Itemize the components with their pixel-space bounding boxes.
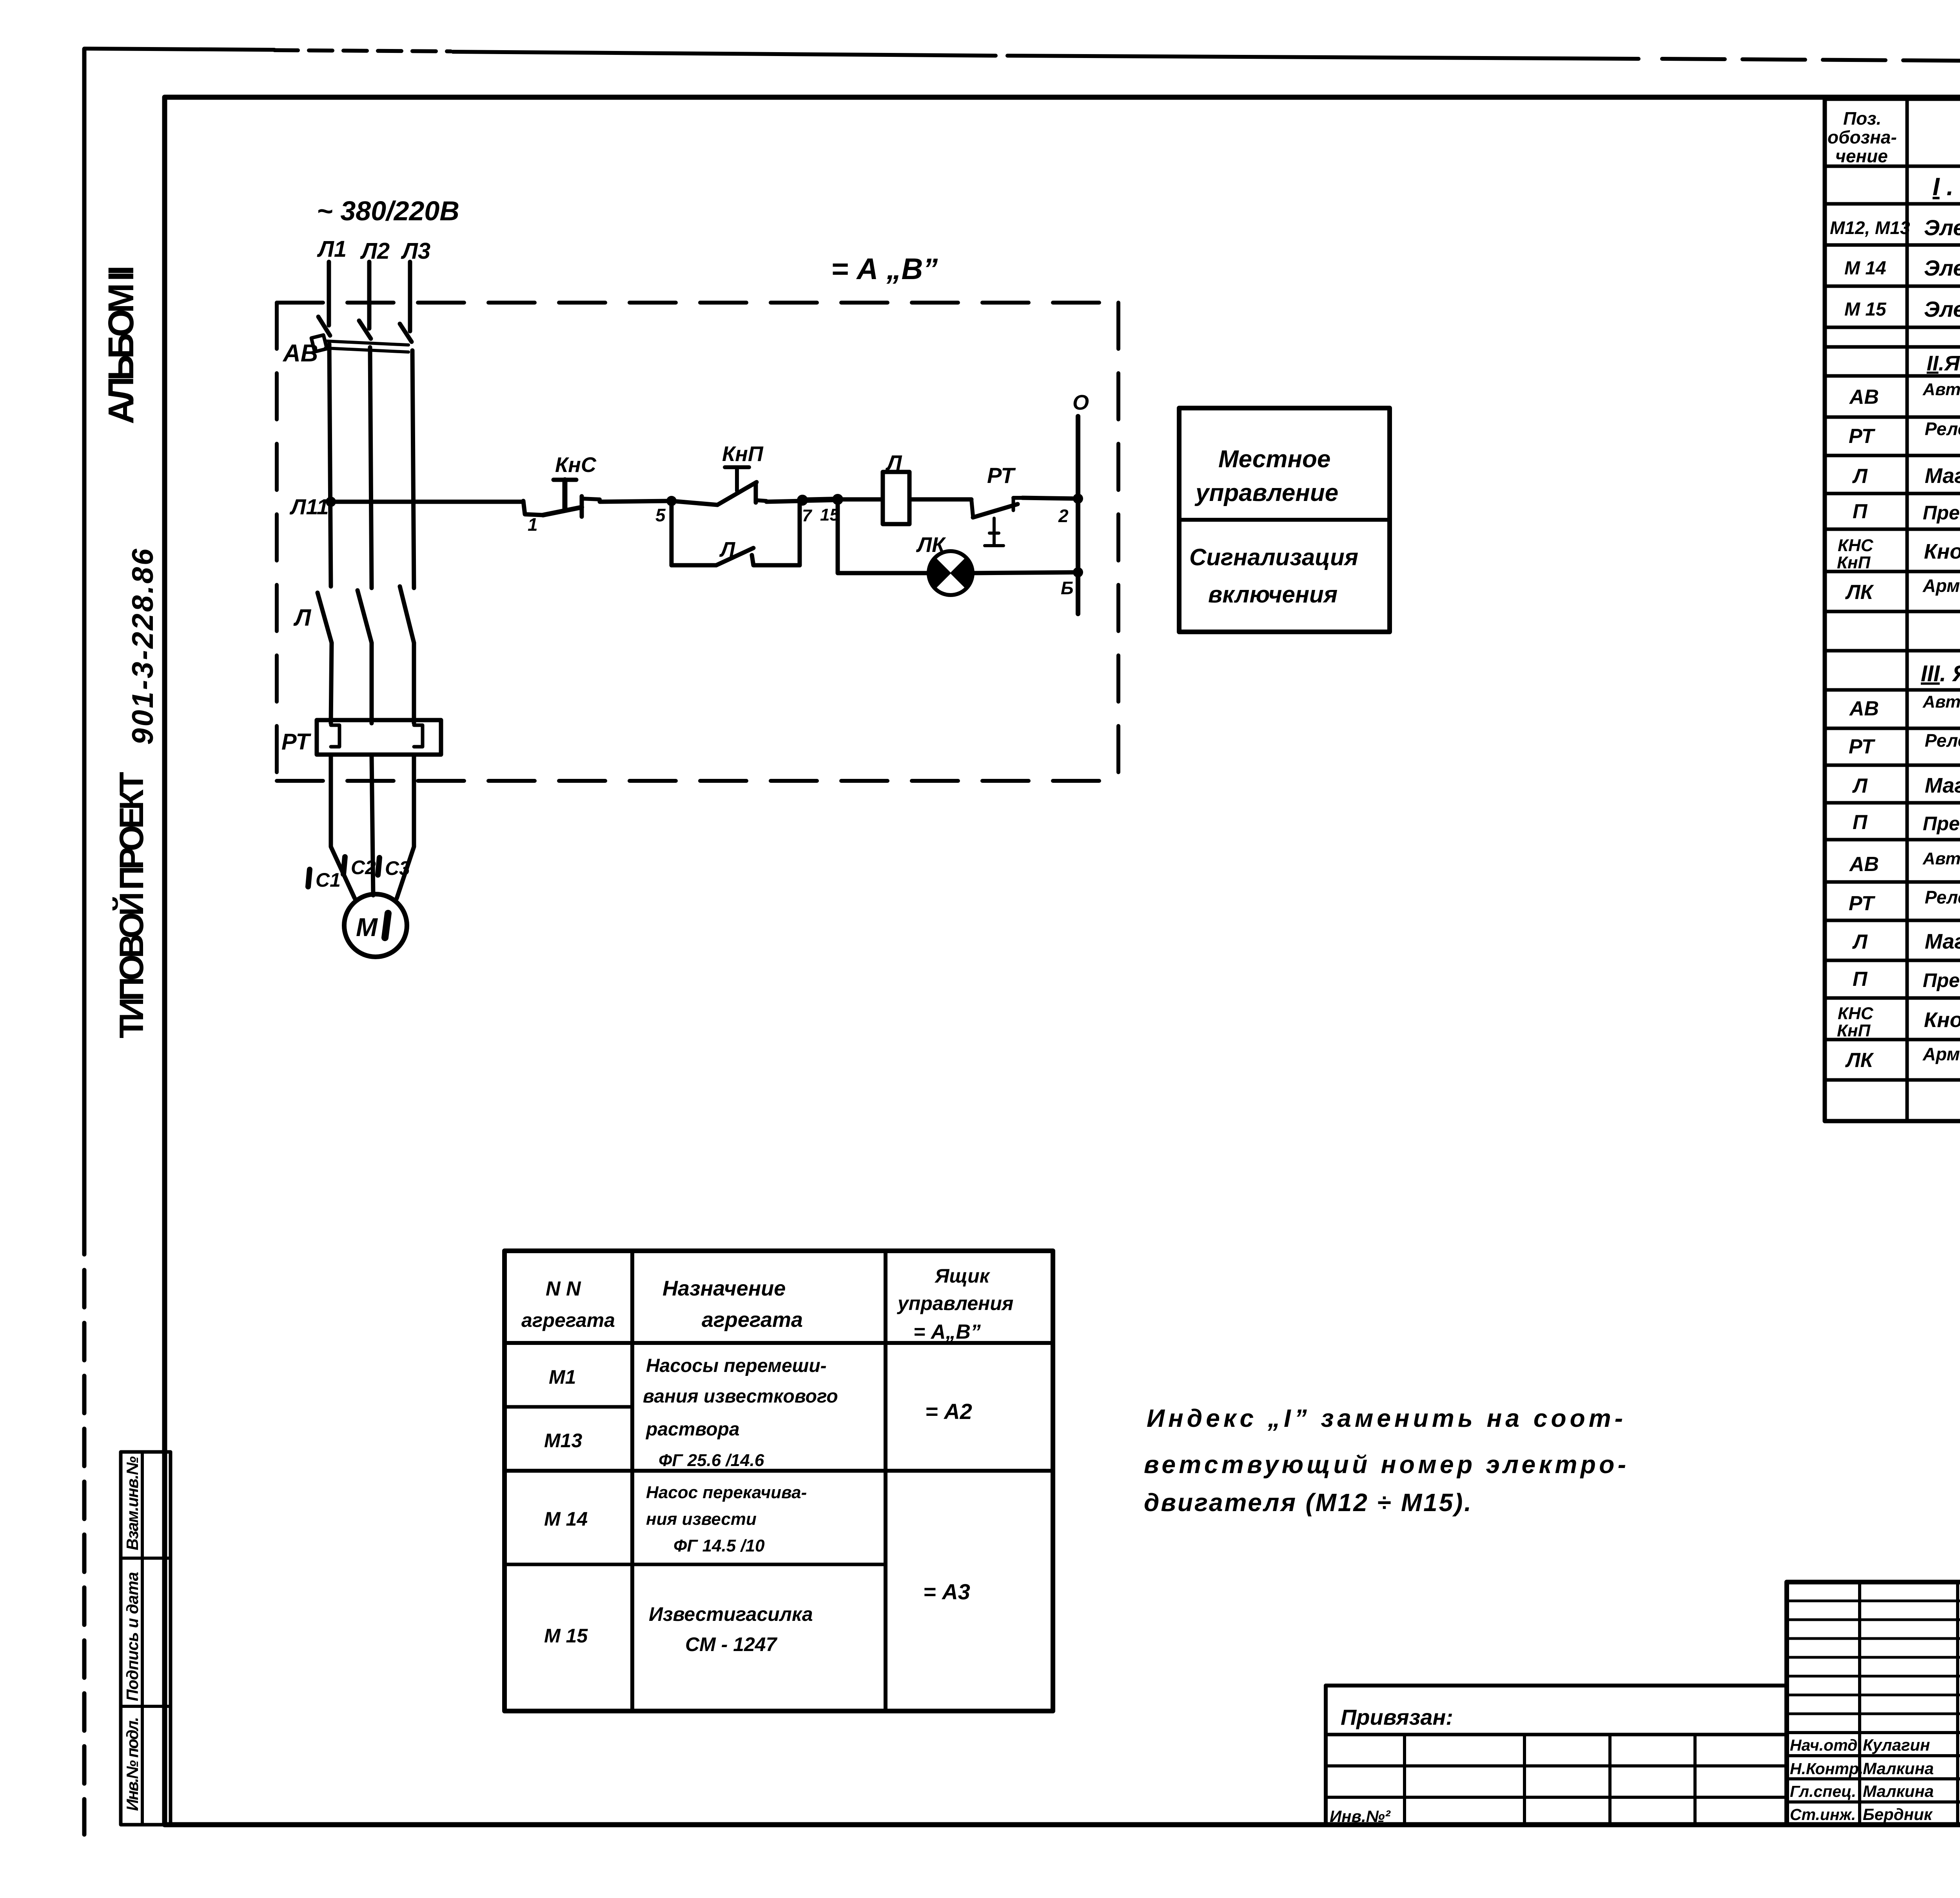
svg-text:Л: Л xyxy=(1852,775,1868,797)
node L3 label xyxy=(401,238,430,264)
svg-text:Предохранитель ПРС-6-П;Iпл.вс: Предохранитель ПРС-6-П;Iпл.вст.= 6А xyxy=(1923,813,1960,835)
svg-text:ЛК: ЛК xyxy=(916,533,946,557)
row M14 lime pump xyxy=(544,1483,807,1555)
svg-text:О: О xyxy=(1073,391,1089,414)
dashed enclosure box A B xyxy=(277,303,1118,781)
svg-text:Автоматический выключатель АП: Автоматический выключатель АП50-3МТ xyxy=(1922,849,1960,868)
row M14 electric motor xyxy=(1844,256,1960,280)
circuit breaker AB xyxy=(282,317,412,367)
row L magnetic starter 2 (box A3) xyxy=(1852,930,1960,955)
svg-text:АВ: АВ xyxy=(1849,697,1879,720)
svg-text:СМ - 1247: СМ - 1247 xyxy=(685,1633,778,1655)
row LK signal lamp (box A2) xyxy=(1845,575,1960,611)
svg-text:ветствующий номер электро-: ветствующий номер электро- xyxy=(1144,1450,1626,1479)
svg-text:Электродвигатель А02-22-4: Электродвигатель А02-22-4 xyxy=(1924,256,1960,280)
row L magnetic starter 1 (box A3) xyxy=(1852,774,1960,799)
svg-text:КНС: КНС xyxy=(1838,536,1874,555)
svg-text:М12, М13: М12, М13 xyxy=(1830,218,1910,238)
svg-text:Н.Контр.: Н.Контр. xyxy=(1790,1760,1863,1778)
svg-text:Гл.спец.: Гл.спец. xyxy=(1790,1782,1856,1800)
svg-text:Взам.инв.№: Взам.инв.№ xyxy=(123,1456,142,1550)
node 2 on bus O xyxy=(1058,494,1082,526)
motor terminal C1 label xyxy=(308,869,341,891)
wire phase L3 breaker to contactor xyxy=(412,350,414,588)
aggregates table grid xyxy=(505,1251,1053,1711)
thermal relay RT heaters xyxy=(281,720,441,755)
wire phase L3 to motor xyxy=(397,755,414,898)
svg-text:АЛЬБОМ II: АЛЬБОМ II xyxy=(101,265,141,424)
svg-text:КнП: КнП xyxy=(722,442,764,466)
svg-text:901-3-228.86: 901-3-228.86 xyxy=(126,548,160,745)
svg-text:Привязан:: Привязан: xyxy=(1341,1705,1453,1729)
svg-text:КнС: КнС xyxy=(555,453,597,477)
svg-text:7: 7 xyxy=(802,506,813,525)
svg-text:III. Ящик управления = А3(ЯУ51: III. Ящик управления = А3(ЯУ5115-03А2Л-0… xyxy=(1921,661,1960,686)
svg-text:Л: Л xyxy=(885,450,902,475)
svg-text:Предохранитель ПРС-6-П;Iпл.вс: Предохранитель ПРС-6-П;Iпл.вст. = 6А xyxy=(1923,502,1960,524)
svg-text:М13: М13 xyxy=(544,1430,582,1452)
svg-text:двигателя (М12 ÷ М15).: двигателя (М12 ÷ М15). xyxy=(1144,1488,1471,1517)
svg-text:С3: С3 xyxy=(385,857,410,879)
table header texts xyxy=(1828,108,1960,166)
svg-text:N N: N N xyxy=(546,1277,581,1300)
motor terminal C2 label xyxy=(343,856,376,878)
svg-text:Нач.отд.: Нач.отд. xyxy=(1790,1736,1862,1754)
svg-text:М 14: М 14 xyxy=(1844,258,1886,279)
row M15 lime slaker xyxy=(544,1579,970,1655)
svg-text:Магнитный пускатель ПМЕ 111: Магнитный пускатель ПМЕ 111 xyxy=(1925,774,1960,797)
svg-text:Инв.№ подл.: Инв.№ подл. xyxy=(123,1717,142,1811)
svg-text:включения: включения xyxy=(1208,581,1338,608)
svg-text:Ящик: Ящик xyxy=(934,1265,991,1287)
section I header xyxy=(1933,172,1960,201)
row M15 electric motor xyxy=(1844,297,1960,321)
svg-text:КнП: КнП xyxy=(1837,1021,1871,1040)
svg-text:РТ: РТ xyxy=(1849,425,1876,448)
node 5 junction xyxy=(655,497,676,525)
wire control rung from node L11 xyxy=(331,500,523,504)
svg-text:Л1: Л1 xyxy=(317,236,347,262)
svg-text:РТ: РТ xyxy=(1849,735,1876,758)
svg-text:Арматура сигнальная АЕ32 111У3: Арматура сигнальная АЕ32 111У3 xyxy=(1922,1044,1960,1064)
svg-text:КнП: КнП xyxy=(1837,553,1871,572)
svg-text:Кнопка управления КЕО 11У3: Кнопка управления КЕО 11У3 xyxy=(1924,1008,1960,1032)
svg-text:~ 380/220В: ~ 380/220В xyxy=(317,196,459,226)
node B on bus O xyxy=(1061,568,1082,598)
svg-text:Превохранитель ПРС-6-П;Iпл.вс: Превохранитель ПРС-6-П;Iпл.вст.= 6А xyxy=(1923,969,1960,991)
bus O vertical xyxy=(1073,391,1089,614)
wire KnP to node 7 xyxy=(766,501,802,502)
svg-text:С2: С2 xyxy=(351,856,376,878)
svg-text:Насос перекачива-: Насос перекачива- xyxy=(646,1483,807,1502)
svg-text:Электродвигатель 4А 100S4: Электродвигатель 4А 100S4 xyxy=(1924,215,1960,240)
outer sheet border top xyxy=(84,49,274,50)
wire phase L2 to motor xyxy=(372,755,373,895)
node L11 junction xyxy=(289,494,335,519)
wire node 7 to node 15 xyxy=(802,499,838,500)
wire phase L1 contactor to thermal relay xyxy=(331,643,332,723)
svg-text:Автоматический выключатель АП: Автоматический выключатель АП50-3МТ xyxy=(1922,692,1960,711)
svg-text:М: М xyxy=(356,913,378,942)
svg-text:Л: Л xyxy=(293,604,312,631)
svg-text:5: 5 xyxy=(655,505,666,525)
motor M1 xyxy=(344,894,407,957)
svg-text:ЛК: ЛК xyxy=(1845,1049,1874,1072)
wire RT contact to node 2 xyxy=(1022,498,1078,499)
svg-text:ФГ 25.6 /14.6: ФГ 25.6 /14.6 xyxy=(659,1451,764,1470)
svg-text:= А2: = А2 xyxy=(925,1399,972,1424)
outer sheet border left xyxy=(82,49,87,1254)
section II header xyxy=(1927,352,1960,375)
wire phase L1 to motor xyxy=(331,755,355,898)
svg-text:КНС: КНС xyxy=(1838,1004,1874,1023)
svg-text:АВ: АВ xyxy=(1849,853,1879,876)
svg-text:Местное: Местное xyxy=(1218,446,1330,473)
contactor L main contacts xyxy=(293,586,414,643)
node 7 terminal xyxy=(798,495,813,525)
svg-text:Реле тепловое ТРН-10: Реле тепловое ТРН-10 xyxy=(1925,730,1960,751)
svg-text:Малкина: Малкина xyxy=(1863,1782,1934,1800)
wire node 15 down to lamp branch xyxy=(838,499,928,573)
signature rows xyxy=(1790,1736,1934,1824)
svg-text:Л11: Л11 xyxy=(289,494,329,519)
signal lamp LK xyxy=(916,533,973,595)
row M12 M13 electric motor xyxy=(1830,215,1960,240)
row LK signal lamp (box A3) xyxy=(1845,1044,1960,1079)
svg-text:ТИПОВОЙ ПРОЕКТ: ТИПОВОЙ ПРОЕКТ xyxy=(113,772,151,1038)
svg-text:ФГ 14.5 /10: ФГ 14.5 /10 xyxy=(673,1536,765,1555)
svg-text:Кулагин: Кулагин xyxy=(1863,1736,1930,1754)
svg-text:2: 2 xyxy=(1058,506,1069,526)
svg-text:П: П xyxy=(1853,811,1868,834)
wire phase L2 incoming xyxy=(367,262,372,328)
component list table grid xyxy=(1825,99,1960,1121)
wire node 15 to coil L xyxy=(838,497,883,502)
svg-text:Бердник: Бердник xyxy=(1863,1805,1933,1824)
motor terminal C3 label xyxy=(378,857,410,879)
svg-text:Насосы перемеши-: Насосы перемеши- xyxy=(646,1355,827,1376)
svg-text:Поз.: Поз. xyxy=(1843,108,1881,129)
node L1 label xyxy=(317,236,347,262)
svg-text:= А3: = А3 xyxy=(923,1579,970,1604)
svg-text:ЛК: ЛК xyxy=(1845,581,1874,604)
row AB breaker 2 (box A3) xyxy=(1849,849,1960,882)
svg-text:Л3: Л3 xyxy=(401,238,430,264)
svg-text:Назначение: Назначение xyxy=(662,1277,786,1300)
svg-text:РТ: РТ xyxy=(987,463,1016,488)
svg-text:II.Ящик управления = А2(ЯУ5115: II.Ящик управления = А2(ЯУ5115-03А2П-03А… xyxy=(1927,352,1960,375)
svg-text:вания известкового: вания известкового xyxy=(643,1386,838,1407)
row KNS KNP pushbutton (box A3) xyxy=(1837,1004,1960,1040)
row RT thermal relay 2 (box A3) xyxy=(1849,887,1960,920)
svg-text:РТ: РТ xyxy=(1849,892,1876,915)
privyazan box xyxy=(1326,1686,1787,1825)
svg-text:П: П xyxy=(1853,500,1868,523)
wire phase L1 breaker to contactor xyxy=(329,344,331,586)
wire phase L3 incoming xyxy=(408,262,412,331)
contactor L auxiliary contact (self-hold branch) xyxy=(671,501,800,565)
svg-text:Автоматический выключатель АП5: Автоматический выключатель АП50-3М1 xyxy=(1922,380,1960,399)
svg-text:Б: Б xyxy=(1061,578,1074,598)
svg-text:Л: Л xyxy=(1852,931,1868,953)
row RT thermal relay 1 (box A3) xyxy=(1849,730,1960,764)
svg-text:АВ: АВ xyxy=(1849,386,1879,408)
svg-text:= А„В”: = А„В” xyxy=(913,1321,981,1343)
row AB breaker (box A2) xyxy=(1849,380,1960,417)
svg-text:С1: С1 xyxy=(316,869,341,891)
svg-text:М 14: М 14 xyxy=(544,1508,588,1530)
section III header xyxy=(1921,661,1960,686)
svg-text:Кнопка управления КЕ-011У3: Кнопка управления КЕ-011У3 xyxy=(1924,540,1960,563)
svg-text:Инв.№²: Инв.№² xyxy=(1330,1807,1391,1825)
wire lamp LK to node B xyxy=(973,572,1078,573)
svg-text:Малкина: Малкина xyxy=(1863,1759,1934,1778)
svg-text:управление: управление xyxy=(1194,479,1338,506)
note text index I xyxy=(1144,1404,1626,1517)
row L magnetic starter (box A2) xyxy=(1852,464,1960,490)
wire phase L3 contactor to thermal relay xyxy=(412,643,416,723)
svg-text:Известигасилка: Известигасилка xyxy=(649,1603,813,1625)
svg-text:М 15: М 15 xyxy=(544,1625,588,1647)
wire phase L2 breaker to contactor xyxy=(370,347,372,588)
svg-text:обозна-: обозна- xyxy=(1828,127,1897,147)
svg-text:управления: управления xyxy=(897,1292,1013,1314)
svg-text:агрегата: агрегата xyxy=(702,1308,803,1332)
svg-text:РТ: РТ xyxy=(281,729,311,755)
svg-text:Подпись и дата: Подпись и дата xyxy=(123,1572,142,1701)
pushbutton KnS (stop, NC) xyxy=(523,453,600,535)
svg-text:Реле тепловое ТРН-10: Реле тепловое ТРН-10 xyxy=(1925,887,1960,907)
wire phase L1 incoming xyxy=(327,262,331,325)
row P fuse 2 (box A3) xyxy=(1853,968,1960,991)
title block outline xyxy=(1787,1582,1960,1825)
row M13 xyxy=(544,1399,972,1470)
svg-text:= А „В”: = А „В” xyxy=(831,252,938,286)
thermal relay RT contact (NC) xyxy=(971,463,1022,546)
svg-text:М1: М1 xyxy=(549,1366,576,1388)
wire phase L2 contactor to thermal relay xyxy=(370,643,374,723)
svg-text:Индекс „I” заменить на соот-: Индекс „I” заменить на соот- xyxy=(1147,1404,1623,1432)
svg-text:Магнитный пускатель ПМЕ 111.: Магнитный пускатель ПМЕ 111. xyxy=(1925,930,1960,953)
svg-text:1: 1 xyxy=(528,514,538,535)
svg-text:Арматура сигнальная АЕ 32111 У: Арматура сигнальная АЕ 32111 У3 xyxy=(1922,575,1960,596)
svg-text:Ст.инж.: Ст.инж. xyxy=(1790,1805,1856,1824)
svg-text:Реле тепловое ТРН-10: Реле тепловое ТРН-10 xyxy=(1925,419,1960,439)
svg-text:М 15: М 15 xyxy=(1844,299,1887,320)
left margin stamp table xyxy=(121,1452,171,1825)
svg-text:АВ: АВ xyxy=(282,340,318,367)
svg-text:Л: Л xyxy=(1852,465,1868,488)
wire KnS to node 5 xyxy=(600,501,671,502)
row P fuse 1 (box A3) xyxy=(1853,811,1960,835)
row RT thermal relay (box A2) xyxy=(1849,419,1960,454)
svg-text:ния извести: ния извести xyxy=(646,1510,757,1529)
svg-text:Л2: Л2 xyxy=(360,238,390,264)
node 15 terminal xyxy=(820,495,842,524)
row AB breaker 1 (box A3) xyxy=(1849,692,1960,729)
row M1 pumps xyxy=(549,1355,838,1407)
svg-text:Магнитный пускатель ПМЕ Н1: Магнитный пускатель ПМЕ Н1 xyxy=(1925,464,1960,488)
legend box local control / signalling xyxy=(1179,408,1390,632)
node L2 label xyxy=(360,238,390,264)
svg-text:П: П xyxy=(1853,968,1868,991)
wire coil L to RT contact xyxy=(909,497,971,502)
row KNS KNP pushbutton (box A2) xyxy=(1837,536,1960,572)
svg-text:Сигнализация: Сигнализация xyxy=(1189,544,1358,570)
svg-text:чение: чение xyxy=(1835,146,1888,166)
svg-text:I . У механизма .: I . У механизма . xyxy=(1933,172,1960,201)
svg-text:агрегата: агрегата xyxy=(521,1309,615,1331)
row P fuse (box A2) xyxy=(1853,500,1960,524)
pushbutton KnP (start, NO) xyxy=(671,442,766,505)
contactor coil L xyxy=(883,450,909,524)
aggregates table header xyxy=(521,1265,1013,1343)
supply voltage label ~380/220V xyxy=(317,196,459,226)
svg-text:Л: Л xyxy=(719,538,736,561)
svg-text:раствора: раствора xyxy=(645,1419,740,1440)
svg-text:Электродвигатель АОЛ2-31-4: Электродвигатель АОЛ2-31-4 xyxy=(1924,297,1960,321)
control box designation = A "B" xyxy=(831,252,938,286)
